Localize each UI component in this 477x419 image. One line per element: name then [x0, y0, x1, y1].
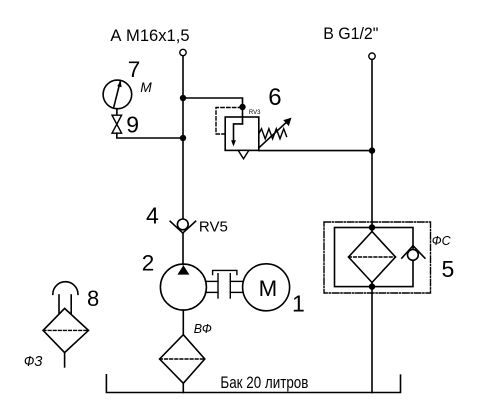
svg-text:ВФ: ВФ [194, 321, 212, 336]
svg-text:6: 6 [268, 84, 281, 111]
coupling pump-motor [206, 270, 244, 298]
relief valve 6 body [225, 117, 259, 150]
svg-text:5: 5 [442, 256, 455, 282]
svg-text:M: M [259, 276, 278, 301]
wire suction filter to tank [182, 383, 184, 392]
node filter top [369, 224, 375, 230]
svg-text:9: 9 [126, 112, 139, 138]
svg-text:8: 8 [87, 286, 99, 311]
node RV3 [239, 104, 245, 110]
check valve 4 ball [177, 219, 188, 230]
svg-text:7: 7 [128, 57, 141, 82]
relief valve 6 drain triangle [238, 150, 249, 158]
breather filter 8 stub [64, 353, 66, 367]
svg-text:А М16х1,5: А М16х1,5 [110, 27, 189, 45]
node filter bottom [369, 283, 375, 289]
svg-text:4: 4 [146, 202, 159, 228]
check valve 4 seat [170, 221, 195, 233]
tank [106, 375, 400, 393]
svg-text:1: 1 [292, 291, 305, 317]
svg-text:В G1/2": В G1/2" [323, 25, 378, 43]
svg-text:RV3: RV3 [249, 109, 261, 116]
wire relief valve outlet to B line [259, 150, 372, 152]
pump 2 [160, 264, 206, 310]
node junction A-branch [180, 95, 186, 101]
relief valve 6 adjustment arrow [259, 118, 291, 148]
relief valve 6 internal arrow [231, 117, 242, 147]
svg-text:Бак 20 литров: Бак 20 литров [220, 374, 308, 392]
svg-text:RV5: RV5 [199, 220, 228, 236]
return filter 5 element [349, 232, 396, 283]
wire A vertical (port A to check valve 4) [182, 56, 184, 220]
wire check valve to pump [182, 233, 184, 265]
relief valve 6 spring [259, 129, 287, 139]
breather filter 8 neck [59, 295, 71, 314]
breather filter 8 arc [53, 282, 78, 295]
svg-text:ФС: ФС [432, 233, 451, 248]
relief valve 6 pilot line (dashed) [216, 108, 240, 135]
svg-text:ФЗ: ФЗ [24, 354, 43, 370]
wire valve 9 to main line [117, 133, 183, 138]
filter 5 bypass valve seat [402, 246, 425, 258]
wire pump to suction filter [182, 310, 184, 335]
suction filter ВФ [160, 335, 205, 384]
svg-text:М: М [140, 80, 152, 95]
return filter 5 enclosure (dash-dot) [324, 222, 431, 293]
filter 5 bypass valve ball [408, 250, 419, 261]
node gauge branch [180, 135, 186, 141]
pressure gauge 7 [103, 80, 132, 115]
breather filter 8 element [43, 308, 88, 352]
return filter 5 body [335, 228, 414, 287]
node relief outlet junction [369, 147, 375, 153]
electric motor 1 [243, 264, 290, 311]
svg-text:2: 2 [142, 250, 155, 275]
port A [180, 49, 186, 55]
port B [369, 53, 375, 59]
wire B vertical [371, 59, 373, 392]
shutoff valve 9 [112, 115, 122, 133]
wire branch to relief valve [183, 98, 243, 117]
